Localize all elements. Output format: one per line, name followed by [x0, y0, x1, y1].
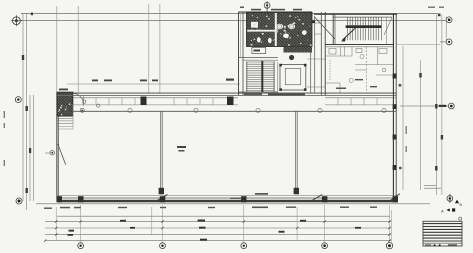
- svg-text:A: A: [441, 209, 444, 214]
